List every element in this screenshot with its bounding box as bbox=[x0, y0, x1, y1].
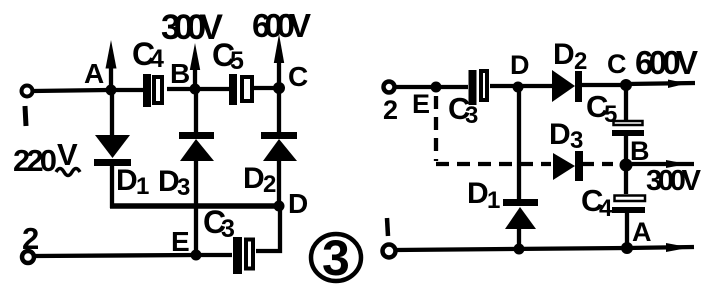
node C bbox=[273, 82, 285, 94]
wire C3 to node D bbox=[490, 84, 518, 88]
svg-text:B: B bbox=[170, 58, 190, 89]
node A (right) bbox=[621, 242, 633, 254]
svg-text:E: E bbox=[171, 226, 190, 257]
arrow up at node B (300V) bbox=[190, 43, 200, 89]
svg-text:300V: 300V bbox=[646, 165, 702, 197]
svg-text:2: 2 bbox=[263, 171, 276, 198]
label 1 (left terminal) bbox=[25, 106, 26, 126]
svg-text:A: A bbox=[632, 217, 652, 247]
diode D1 (left circuit, pointing down) bbox=[94, 90, 131, 208]
node A bbox=[106, 85, 117, 96]
bottom wire terminal 2 to E bbox=[34, 255, 196, 256]
capacitor C4 (right circuit, vertical) bbox=[612, 165, 645, 248]
diode D2 (right circuit, pointing right) bbox=[552, 70, 621, 102]
wire E to C3 bbox=[436, 85, 468, 89]
diode D3 (left circuit, pointing up) bbox=[179, 89, 214, 255]
capacitor C5 (right circuit, vertical) bbox=[612, 85, 644, 164]
svg-text:4: 4 bbox=[599, 195, 613, 222]
svg-text:D: D bbox=[288, 188, 308, 219]
wire terminal1 to node A bbox=[33, 90, 108, 91]
svg-text:D: D bbox=[116, 164, 138, 197]
arrow up at node C (600V) bbox=[274, 34, 284, 88]
terminal 1 (right circuit) bbox=[383, 245, 396, 258]
node B bbox=[190, 84, 201, 95]
wire C5 to node C bbox=[254, 86, 279, 90]
node B (right) bbox=[620, 159, 633, 172]
capacitor C4 bbox=[143, 74, 162, 107]
svg-text:220: 220 bbox=[13, 143, 57, 178]
svg-text:2: 2 bbox=[383, 95, 398, 125]
junction dot D1 on bottom wire bbox=[514, 244, 525, 255]
svg-text:2: 2 bbox=[22, 221, 39, 256]
diode D2 (left circuit, pointing up) bbox=[261, 88, 297, 206]
svg-text:V: V bbox=[57, 137, 78, 172]
wire D to diode D2 bbox=[518, 84, 552, 88]
bus wire D1 bottom to node D bbox=[110, 203, 279, 208]
diode D3 (right circuit, pointing right, on dashed line) bbox=[553, 151, 620, 181]
svg-text:C: C bbox=[607, 49, 627, 79]
svg-text:D: D bbox=[549, 118, 571, 151]
wire B to C5 bbox=[195, 87, 230, 91]
svg-text:B: B bbox=[630, 136, 650, 166]
svg-text:3: 3 bbox=[322, 230, 350, 286]
node D (left) bbox=[274, 201, 285, 212]
node D (right) bbox=[513, 82, 524, 93]
svg-text:1: 1 bbox=[136, 173, 149, 200]
svg-text:600V: 600V bbox=[252, 7, 311, 44]
wire terminal2 to node E bbox=[395, 85, 436, 89]
capacitor C5 bbox=[229, 74, 252, 105]
svg-text:2: 2 bbox=[574, 48, 587, 75]
svg-text:E: E bbox=[412, 89, 430, 119]
svg-text:4: 4 bbox=[150, 45, 164, 73]
node E (right) bbox=[431, 82, 442, 93]
wire node D down and left to C3 bbox=[256, 206, 280, 251]
svg-text:A: A bbox=[84, 58, 104, 89]
node C (right) bbox=[620, 79, 632, 91]
terminal 2 (left circuit) bbox=[22, 251, 34, 263]
svg-text:5: 5 bbox=[604, 101, 617, 128]
dashed wire E down and right to D3 bbox=[436, 96, 551, 164]
terminal 1 (left circuit input) bbox=[22, 86, 33, 97]
svg-text:3: 3 bbox=[177, 174, 190, 201]
svg-text:D: D bbox=[243, 162, 265, 195]
capacitor C3 (left circuit) bbox=[233, 237, 253, 274]
node E (left) bbox=[191, 250, 202, 261]
bottom wire terminal1 to node A and arrow out bbox=[396, 243, 694, 252]
svg-text:C: C bbox=[288, 61, 308, 92]
svg-text:3: 3 bbox=[221, 215, 235, 243]
svg-text:3: 3 bbox=[465, 102, 478, 129]
wire C4 to node B bbox=[167, 87, 194, 91]
svg-text:600V: 600V bbox=[635, 44, 698, 81]
svg-text:D: D bbox=[553, 38, 575, 71]
wire C to right with arrow (600V output) bbox=[626, 80, 695, 89]
wire C3 to node E bbox=[196, 253, 232, 257]
svg-text:5: 5 bbox=[230, 47, 244, 75]
svg-text:3: 3 bbox=[570, 127, 583, 154]
wire B to right with arrow (300V output) bbox=[632, 160, 694, 168]
wire A to C4 bbox=[111, 88, 144, 92]
arrow up at node A bbox=[106, 40, 117, 90]
label 220V~ source bbox=[13, 137, 80, 178]
figure number 3 (circled) bbox=[311, 230, 361, 286]
svg-text:D: D bbox=[467, 177, 489, 210]
svg-text:D: D bbox=[510, 50, 530, 80]
diode D1 (right circuit, vertical, pointing up) bbox=[503, 87, 538, 250]
label 1 (right terminal) bbox=[387, 218, 388, 236]
capacitor C3 (right circuit) bbox=[469, 70, 488, 105]
svg-text:1: 1 bbox=[487, 187, 500, 214]
terminal 2 (right circuit) bbox=[384, 82, 395, 93]
